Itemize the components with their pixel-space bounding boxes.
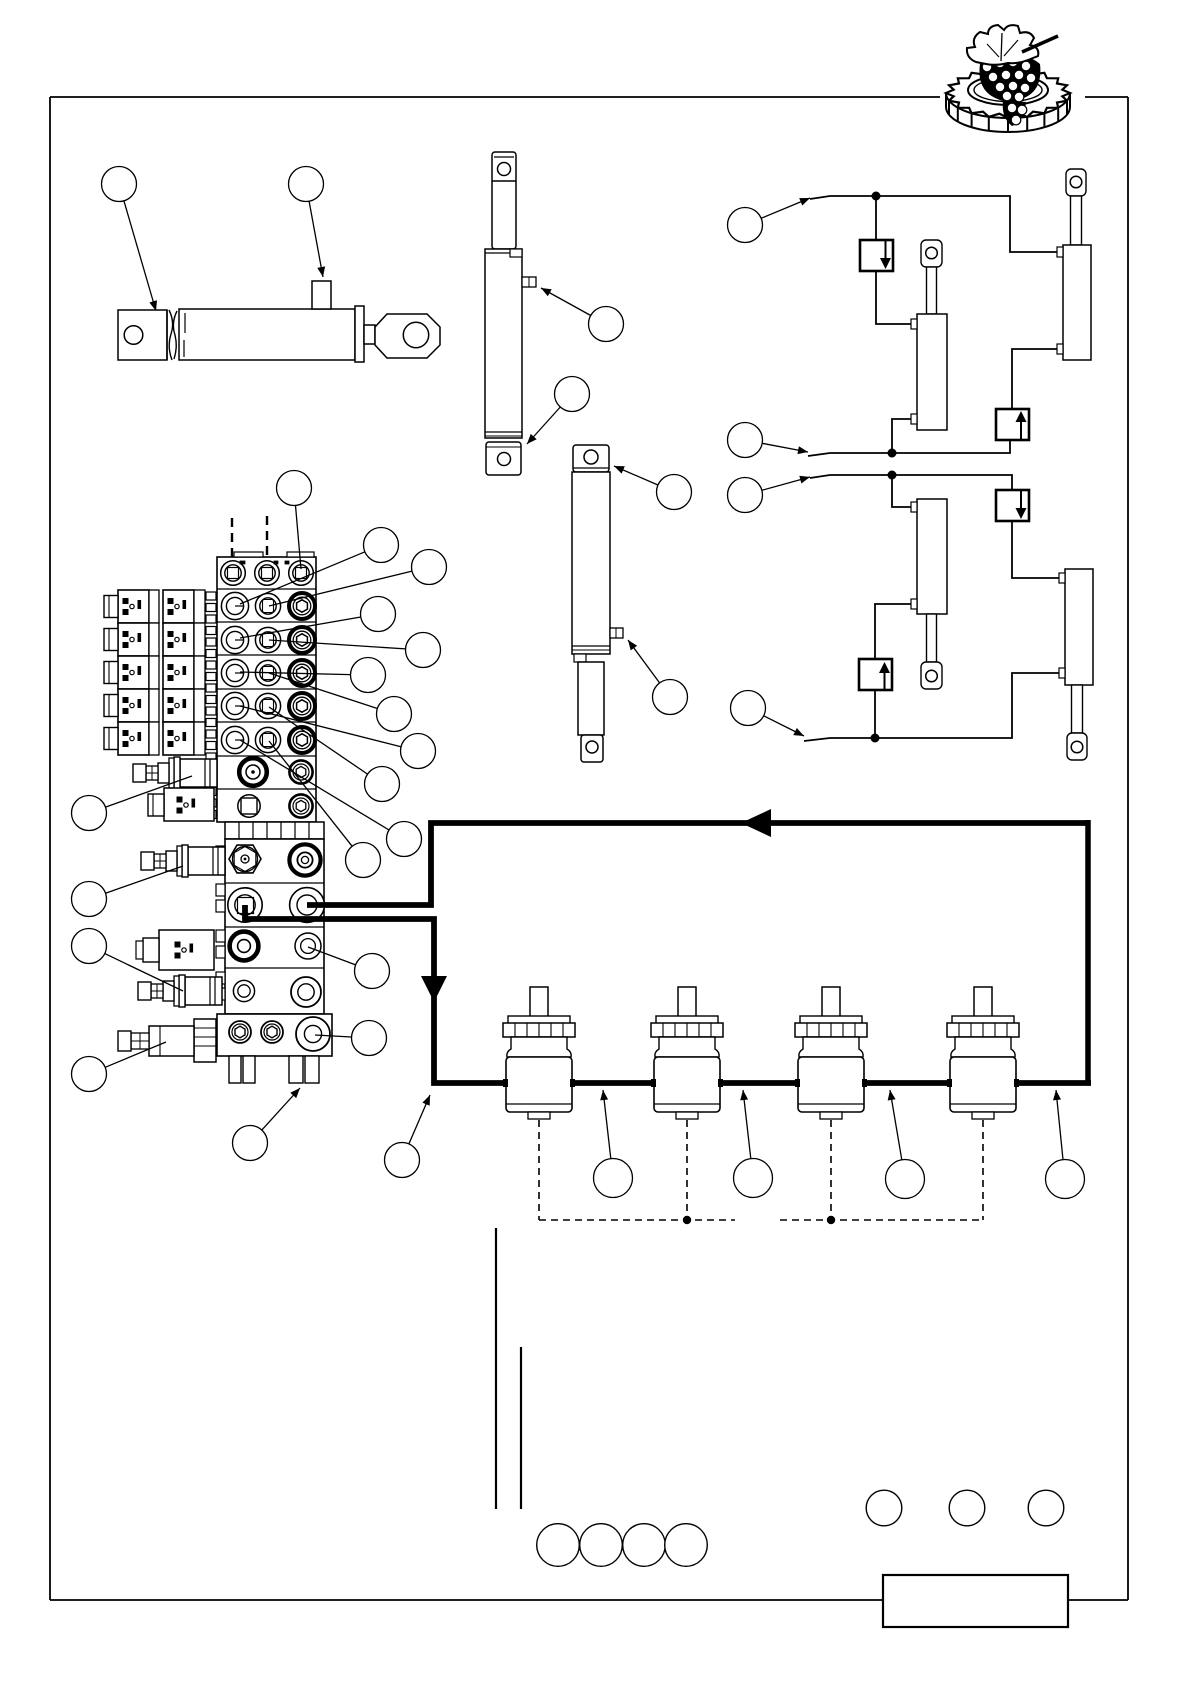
node: upper feed junction (872, 192, 881, 201)
cylinder R1: barrel (1063, 245, 1091, 360)
cylinder M2: rod (927, 614, 937, 662)
hydraulic motor 4 (947, 987, 1019, 1119)
drain dashed line motor 4 (982, 1120, 984, 1220)
solenoid coil pair row 2 (104, 623, 205, 656)
relief cartridge 4 with collar (118, 1019, 216, 1062)
wire: upper feed line (810, 196, 1057, 252)
wire: upper circuit lower line (808, 440, 1010, 456)
drain manifold dashed bus 1 (539, 1219, 735, 1221)
drain dashed line motor 2 (686, 1120, 688, 1220)
cylinder C1: head cap (355, 306, 364, 362)
port row4 work ports (221, 659, 280, 686)
port row8 (238, 795, 260, 817)
cylinder R1: port nubs (1057, 247, 1063, 354)
plug row7 hex socket (289, 760, 312, 783)
cylinder V1: side port (522, 277, 536, 287)
node: bottom line junction (871, 734, 880, 743)
wire: mid cylinder 2 to relief valve (875, 604, 911, 659)
solenoid coil pair row 4 (104, 689, 205, 722)
callout 5 (V2 top eye) (614, 466, 692, 510)
logo vine leaf (967, 25, 1058, 65)
page code circles (3) (866, 1490, 1064, 1526)
callout 9 (lower circuit feed) (728, 476, 811, 513)
check valve V2 (up flow) (996, 409, 1029, 440)
callout (motor 2 connection) (734, 1090, 773, 1198)
cylinder C1 horizontal: rear clevis block (118, 310, 167, 360)
plug row6 hex socket (289, 727, 315, 753)
node: drain junction motor3 (827, 1216, 835, 1224)
check valve V3 (down flow) (996, 490, 1029, 521)
node: drain junction motor2 (683, 1216, 691, 1224)
cylinder M1: barrel (917, 314, 947, 430)
callout (cartridge 1) (72, 776, 193, 831)
plug row8 hex socket (289, 794, 312, 817)
cylinder M1: rod (927, 267, 937, 314)
wire: mid cylinder bottom to lower line (892, 419, 911, 453)
cylinder V2: rod (578, 662, 604, 735)
node: lower line junction (888, 449, 897, 458)
page code circles (4) (537, 1524, 708, 1567)
callout (cartridge 4) (72, 1042, 167, 1092)
callout 7 (upper circuit feed) (728, 198, 811, 243)
callout 1 (cylinder body) (102, 167, 158, 312)
solenoid coil pair row 1 (104, 590, 205, 623)
callout (row3 mid port) (269, 633, 441, 668)
logo grape cluster (979, 54, 1040, 126)
wire: valve V4 to bottom line (874, 690, 876, 738)
cylinder C1: barrel (179, 309, 355, 360)
return hose (block to loop top) (307, 823, 1088, 905)
solenoid coil pair row 3 (104, 656, 205, 689)
port row7 pressure port (cone) (239, 758, 267, 786)
cylinder V2: bottom eye (581, 735, 603, 762)
relief cartridge 3 (138, 975, 222, 1007)
wire: check valve to mid cylinder (876, 271, 911, 324)
cylinder C1: rod eye (375, 314, 440, 358)
cylinder V2: barrel (572, 472, 610, 662)
manifold upper block (217, 552, 316, 822)
rowA2 return port (290, 888, 325, 923)
mounting legs (229, 1056, 319, 1083)
revision bar line 2 (520, 1347, 522, 1509)
callout (row6 left port) (240, 740, 422, 857)
wire: check valve V3 to right cylinder 2 (1012, 521, 1059, 578)
callout (supply hose corner) (385, 1095, 431, 1178)
rowA4 left port (233, 980, 254, 1001)
callout (row2 left port) (240, 528, 399, 605)
drain manifold dashed bus 2 (780, 1219, 984, 1221)
callout 8 (upper circuit return) (728, 423, 809, 458)
callout (cartridge 3) (72, 929, 184, 992)
flow arrow on top return line (741, 809, 771, 837)
cylinder V1: rod with top eye (492, 152, 516, 249)
callout (row6 mid port) (269, 741, 381, 878)
logo gear wheel (946, 68, 1070, 132)
wire: check valve V2 to right cylinder (1012, 349, 1057, 409)
manifold row separators (217, 589, 316, 789)
cylinder M2: port nubs (911, 502, 917, 609)
relief cartridge 1 (133, 757, 217, 789)
cylinder M2 (mid, rod down): barrel (917, 499, 947, 614)
port row3 work ports (221, 626, 280, 653)
check valve V1 (down flow) (860, 240, 893, 271)
port row1 (3 gauge ports) (221, 561, 314, 586)
cylinder V1: bottom eye (486, 442, 521, 475)
cylinder V1: barrel (485, 249, 522, 438)
plug row5 hex socket (289, 693, 315, 719)
cylinder R2: rod (1072, 685, 1083, 733)
wire: lower circuit top line (810, 475, 1012, 490)
rowA4 right port (291, 977, 321, 1007)
cylinder C1: neck (167, 310, 177, 360)
callout (motor 4 connection) (1046, 1090, 1085, 1199)
callout (row3 left port) (240, 597, 396, 639)
callout (row4 left port) (240, 658, 386, 693)
solenoid valve S1 (148, 788, 214, 821)
left edge tabs of lower block (216, 846, 225, 1000)
rowA3 right port (295, 933, 321, 959)
rowA1 heavy ring port (289, 844, 320, 875)
cylinder R1 (right, rod up): eye (1066, 169, 1086, 196)
callout (mounting leg) (233, 1088, 301, 1161)
solenoid coil pair row 5 (104, 722, 205, 755)
cylinder M1 (mid, rod up): eye (921, 240, 942, 267)
drain dashed line motor 3 (830, 1120, 832, 1220)
plug row2 hex socket (289, 593, 315, 619)
cylinder C1: port stub (312, 281, 331, 309)
callout 3 (V1 port) (541, 288, 624, 342)
callout 2 (cylinder port) (289, 167, 326, 278)
hydraulic motor 3 (795, 987, 867, 1119)
port row5 work ports (221, 692, 280, 719)
supply hose (block to motor bus) (245, 905, 1091, 1083)
lower block row separators (225, 883, 324, 968)
node: lower top junction (888, 471, 897, 480)
wire: lower circuit bottom line (804, 673, 1059, 741)
title box (883, 1575, 1068, 1627)
foot block hex plugs (229, 1021, 283, 1043)
check valve V4 (up flow) (859, 659, 892, 690)
cylinder C1: rod (364, 325, 375, 344)
revision bar line 1 (495, 1228, 497, 1509)
cylinder R2: eye (1067, 733, 1087, 760)
cylinder M1: port nubs (911, 319, 917, 424)
callout (row2 mid port) (269, 550, 447, 607)
callout (row5 left port) (240, 706, 436, 769)
cylinder R1: rod (1071, 196, 1082, 245)
cylinder V2: top eye block (573, 445, 609, 472)
relief cartridge 2 (141, 845, 225, 877)
port row6 work ports (221, 726, 280, 753)
callout 4 (V1 gland) (527, 377, 590, 445)
drain dashed line motor 1 (538, 1120, 540, 1220)
dashed centre lines (232, 516, 267, 571)
cylinder R2: port nubs (1059, 573, 1065, 678)
callout 6 (V2 port) (628, 640, 688, 715)
hydraulic motor 2 (651, 987, 723, 1119)
cylinder R2 (right, rod down): barrel (1065, 569, 1093, 685)
rowA2 supply port (228, 888, 262, 922)
return hose right leg (1085, 820, 1091, 1083)
clamp plate (225, 822, 324, 839)
plug row3 hex socket (289, 627, 315, 653)
hydraulic motor 1 (503, 987, 575, 1119)
callout (row5 mid port) (269, 707, 400, 802)
cylinder V2: side port (610, 628, 623, 638)
port row2 work ports (221, 592, 280, 619)
callout (motor 1 connection) (594, 1090, 633, 1198)
manifold foot block (217, 1014, 332, 1056)
callout (rowA3 right port) (308, 947, 390, 989)
flow arrow on supply drop (421, 976, 447, 1002)
cylinder M2: eye (921, 662, 942, 689)
callout (cartridge 2) (72, 866, 184, 917)
wire: junction to check valve (875, 196, 877, 240)
callout (foot outlet) (315, 1021, 387, 1056)
callout 10 (lower circuit return) (731, 691, 805, 737)
callout (motor 3 connection) (886, 1090, 925, 1199)
callout (row1 port) (277, 471, 312, 570)
callout (row4 mid port) (269, 673, 412, 732)
solenoid valve S2 (136, 930, 214, 970)
manifold lower block (225, 839, 324, 1014)
rowA1 hex head plug (229, 845, 261, 873)
wire: junction to mid cylinder 2 (892, 475, 911, 507)
rowA3 heavy ring port (230, 932, 259, 961)
mounting rail segments (206, 592, 216, 819)
plug row4 hex socket (289, 660, 315, 686)
foot block outlet ring (296, 1017, 330, 1051)
